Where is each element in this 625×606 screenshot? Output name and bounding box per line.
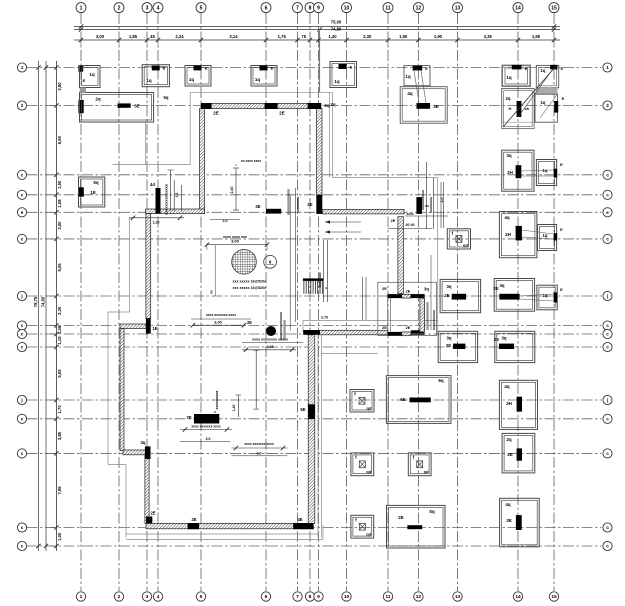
svg-text:7: 7 (296, 5, 299, 11)
svg-text:3E: 3E (255, 204, 260, 209)
svg-text:2E: 2E (307, 202, 312, 207)
svg-text:74,50: 74,50 (41, 296, 46, 307)
svg-text:3,00: 3,00 (231, 239, 240, 244)
svg-text:3,30: 3,30 (57, 306, 62, 315)
svg-text:1,2: 1,2 (175, 193, 179, 198)
svg-text:j: j (606, 398, 608, 403)
svg-text:c: c (21, 237, 24, 242)
svg-text:2: 2 (118, 594, 121, 600)
svg-text:xxxxxxxxxx: xxxxxxxxxx (215, 390, 219, 409)
svg-text:7: 7 (296, 594, 299, 600)
svg-text:xx: xx (425, 204, 429, 208)
svg-text:6,90: 6,90 (57, 135, 62, 144)
svg-text:1,40: 1,40 (232, 405, 236, 412)
svg-text:3E: 3E (433, 104, 439, 109)
svg-text:1,00: 1,00 (57, 532, 62, 541)
svg-text:E: E (205, 66, 208, 71)
svg-text:c: c (606, 451, 609, 456)
svg-text:3,35: 3,35 (484, 34, 493, 39)
svg-text:4E: 4E (297, 517, 302, 522)
svg-text:5: 5 (200, 594, 203, 600)
svg-text:xxxxxxxx: xxxxxxxx (296, 197, 300, 213)
svg-text:5,05: 5,05 (57, 263, 62, 272)
svg-text:8: 8 (309, 594, 312, 600)
svg-text:xxxxxxxxxxxxxx: xxxxxxxxxxxxxx (426, 302, 430, 330)
svg-text:2q: 2q (324, 103, 330, 108)
svg-text:14: 14 (515, 594, 521, 600)
svg-text:4d: 4d (150, 182, 155, 187)
svg-text:1,75: 1,75 (278, 34, 287, 39)
svg-text:2E: 2E (494, 337, 499, 342)
svg-text:c: c (606, 345, 609, 350)
svg-text:qd: qd (367, 406, 372, 411)
svg-text:E: E (560, 162, 563, 167)
svg-text:4q: 4q (504, 384, 510, 389)
svg-text:7E: 7E (186, 415, 191, 420)
svg-text:11: 11 (385, 5, 391, 11)
svg-text:6E: 6E (400, 397, 406, 402)
svg-text:1: 1 (606, 65, 609, 70)
svg-text:4q: 4q (505, 502, 511, 507)
svg-text:xx xxxx xxxx: xx xxxx xxxx (241, 159, 261, 163)
svg-text:78,75: 78,75 (33, 296, 38, 307)
svg-text:40 40: 40 40 (406, 223, 415, 227)
svg-text:2,24: 2,24 (175, 34, 184, 39)
svg-text:2,65: 2,65 (267, 345, 274, 349)
svg-text:1,90: 1,90 (57, 180, 62, 189)
svg-text:xxxx xxxxxxx xxxx: xxxx xxxxxxx xxxx (206, 313, 236, 317)
svg-text:4q: 4q (504, 215, 510, 220)
svg-text:3E: 3E (506, 518, 512, 523)
svg-text:6q: 6q (438, 378, 444, 383)
svg-text:8: 8 (309, 5, 312, 11)
svg-text:5: 5 (200, 5, 203, 11)
svg-text:c: c (21, 345, 24, 350)
svg-text:1,90: 1,90 (434, 34, 443, 39)
svg-text:c: c (21, 323, 24, 328)
svg-text:1q: 1q (541, 100, 546, 105)
svg-text:2E: 2E (493, 286, 498, 291)
svg-text:3q: 3q (446, 336, 451, 341)
svg-text:15: 15 (551, 594, 557, 600)
svg-text:1q: 1q (255, 77, 261, 82)
svg-text:2,70: 2,70 (321, 316, 328, 320)
svg-text:1q: 1q (89, 72, 95, 77)
svg-text:3,50: 3,50 (57, 82, 62, 91)
svg-text:1,50: 1,50 (399, 34, 408, 39)
svg-text:c: c (606, 323, 609, 328)
svg-text:9: 9 (317, 594, 320, 600)
svg-text:c: c (606, 544, 609, 549)
svg-text:3q: 3q (424, 287, 429, 292)
svg-text:qd: qd (366, 469, 371, 474)
svg-text:xxxxxxxx: xxxxxxxx (429, 197, 433, 213)
svg-text:xxxxxxxx: xxxxxxxx (318, 272, 322, 287)
svg-text:1q: 1q (541, 68, 546, 73)
svg-text:1: 1 (80, 5, 83, 11)
svg-text:3,85: 3,85 (57, 431, 62, 440)
svg-text:1: 1 (80, 594, 83, 600)
svg-text:3,0: 3,0 (206, 437, 211, 441)
svg-text:c: c (21, 451, 24, 456)
svg-text:2,30: 2,30 (363, 34, 372, 39)
svg-text:xx: xx (210, 290, 214, 294)
svg-text:2E: 2E (279, 111, 285, 116)
svg-text:3q: 3q (140, 440, 145, 445)
svg-text:c: c (21, 172, 24, 177)
svg-text:2: 2 (21, 103, 24, 108)
svg-text:E: E (561, 66, 564, 71)
svg-text:2: 2 (118, 5, 121, 11)
svg-text:7,55: 7,55 (57, 486, 62, 495)
svg-text:1,08: 1,08 (57, 199, 62, 208)
svg-text:xxxxxxxxxxxxx: xxxxxxxxxxxxx (287, 189, 291, 215)
svg-text:3q: 3q (499, 283, 504, 288)
svg-text:2E: 2E (150, 511, 155, 516)
svg-text:1,15: 1,15 (57, 336, 62, 345)
svg-text:2E: 2E (382, 325, 387, 330)
svg-text:c: c (606, 416, 609, 421)
svg-text:2,40: 2,40 (230, 187, 234, 194)
svg-text:xxxx xxxxxxx xxxx: xxxx xxxxxxx xxxx (191, 425, 221, 429)
svg-text:5,05: 5,05 (57, 369, 62, 378)
svg-text:11: 11 (385, 594, 390, 600)
svg-text:1q: 1q (146, 78, 152, 83)
svg-text:3q: 3q (446, 284, 451, 289)
svg-text:1q: 1q (506, 75, 512, 80)
svg-text:E: E (562, 96, 565, 101)
svg-text:1q: 1q (543, 293, 548, 298)
svg-text:c: c (21, 544, 24, 549)
svg-text:xxx xxxxx 16@520x: xxx xxxxx 16@520x (233, 286, 266, 290)
svg-text:9: 9 (317, 5, 320, 11)
svg-text:10: 10 (344, 594, 350, 600)
svg-text:xxxxxxxxxx: xxxxxxxxxx (283, 320, 287, 340)
svg-text:1q: 1q (543, 233, 548, 238)
svg-text:E: E (350, 65, 353, 70)
svg-text:10: 10 (344, 5, 350, 11)
svg-text:qd: qd (366, 532, 371, 537)
svg-text:1q: 1q (334, 79, 340, 84)
svg-text:E: E (560, 227, 563, 232)
svg-text:13: 13 (455, 594, 461, 600)
svg-text:1E: 1E (152, 326, 157, 331)
svg-text:j: j (20, 294, 22, 299)
svg-text:x: x (213, 411, 217, 413)
svg-text:6: 6 (265, 594, 268, 600)
svg-text:c: c (21, 525, 24, 530)
svg-text:6: 6 (265, 5, 268, 11)
svg-text:3,0: 3,0 (257, 452, 262, 456)
svg-text:2E: 2E (191, 517, 196, 522)
svg-text:2E: 2E (247, 320, 252, 325)
svg-text:4: 4 (157, 5, 160, 11)
svg-text:3: 3 (146, 5, 149, 11)
svg-text:2H: 2H (507, 170, 513, 175)
svg-text:2H: 2H (505, 232, 511, 237)
svg-text:3,14: 3,14 (229, 34, 238, 39)
svg-text:1,70: 1,70 (57, 405, 62, 414)
svg-text:3,00: 3,00 (96, 34, 105, 39)
svg-text:4q: 4q (407, 91, 413, 96)
svg-text:1,95: 1,95 (532, 34, 541, 39)
svg-text:12: 12 (416, 5, 422, 11)
svg-text:2q: 2q (506, 437, 512, 442)
svg-text:e: e (21, 210, 24, 215)
svg-text:2E: 2E (406, 290, 411, 294)
svg-text:j: j (20, 398, 22, 403)
svg-text:xxxx xxxxxxx xxxx: xxxx xxxxxxx xxxx (244, 442, 274, 446)
svg-text:E: E (525, 66, 528, 71)
svg-text:2q: 2q (95, 97, 101, 102)
svg-text:3q: 3q (501, 336, 506, 341)
svg-text:12: 12 (416, 594, 422, 600)
svg-text:2q: 2q (506, 96, 511, 101)
svg-text:E: E (271, 66, 274, 71)
svg-text:c: c (606, 237, 609, 242)
svg-text:15: 15 (551, 5, 557, 11)
svg-text:c: c (606, 172, 609, 177)
svg-text:qd: qd (424, 469, 429, 474)
svg-text:3H: 3H (506, 401, 512, 406)
svg-text:qd: qd (463, 243, 468, 248)
svg-text:xxx xxxxx 16@520x: xxx xxxxx 16@520x (233, 280, 266, 284)
svg-text:74,80: 74,80 (331, 27, 342, 32)
svg-text:c: c (606, 192, 609, 197)
svg-text:4: 4 (157, 594, 160, 600)
svg-text:2: 2 (606, 103, 609, 108)
svg-text:1: 1 (21, 65, 24, 70)
svg-text:2E: 2E (446, 343, 451, 348)
svg-text:E: E (560, 287, 563, 292)
svg-text:2E: 2E (444, 293, 449, 298)
svg-text:1q: 1q (189, 77, 195, 82)
svg-text:H: H (509, 106, 512, 111)
svg-text:2E: 2E (391, 219, 396, 223)
svg-text:5q: 5q (429, 509, 435, 514)
svg-text:1E: 1E (90, 190, 96, 195)
svg-text:3: 3 (146, 594, 149, 600)
svg-text:1,20: 1,20 (153, 221, 160, 225)
svg-text:E: E (425, 66, 428, 71)
svg-text:xxxx: xxxx (406, 212, 413, 216)
svg-text:E: E (163, 66, 166, 71)
svg-text:75,00: 75,00 (331, 20, 342, 25)
svg-text:3q: 3q (506, 153, 512, 158)
svg-text:E: E (83, 78, 86, 83)
svg-text:2E: 2E (507, 452, 513, 457)
svg-text:5q: 5q (164, 95, 169, 100)
svg-text:2E: 2E (213, 111, 219, 116)
svg-text:45: 45 (150, 34, 155, 39)
svg-text:5q: 5q (93, 180, 99, 185)
svg-text:1,85: 1,85 (129, 34, 138, 39)
svg-text:xxxxxxxxxxxxxx: xxxxxxxxxxxxxx (164, 183, 169, 215)
svg-text:j: j (606, 294, 608, 299)
svg-text:c: c (21, 192, 24, 197)
svg-text:c: c (606, 332, 609, 337)
svg-text:3E: 3E (134, 104, 140, 109)
svg-text:c: c (21, 332, 24, 337)
svg-text:2,0: 2,0 (440, 198, 444, 203)
svg-text:1,40: 1,40 (328, 34, 337, 39)
svg-text:1q: 1q (405, 74, 411, 79)
svg-text:c: c (21, 416, 24, 421)
svg-text:75: 75 (301, 34, 306, 39)
svg-text:c: c (606, 525, 609, 530)
svg-text:3,00: 3,00 (214, 321, 221, 325)
svg-text:14: 14 (515, 5, 521, 11)
svg-text:5E: 5E (300, 407, 305, 412)
svg-text:13: 13 (455, 5, 461, 11)
svg-text:2E: 2E (406, 326, 411, 330)
svg-text:1,08: 1,08 (57, 325, 62, 334)
svg-text:2q: 2q (330, 102, 336, 107)
svg-text:e: e (606, 210, 609, 215)
svg-text:3,00: 3,00 (57, 221, 62, 230)
svg-text:xxxxxxxxxx: xxxxxxxxxx (432, 310, 436, 330)
svg-text:2E: 2E (398, 515, 404, 520)
svg-text:2E: 2E (382, 286, 387, 291)
